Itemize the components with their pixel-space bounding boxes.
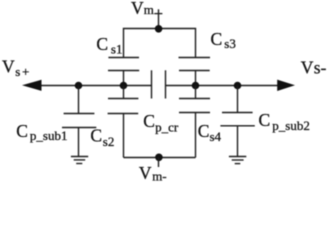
ground left: [71, 157, 88, 164]
svg-text:C: C: [90, 126, 102, 146]
node Vm+: [155, 25, 163, 33]
ground right: [229, 157, 246, 164]
label Cp_sub1: [16, 121, 67, 143]
svg-text:C: C: [259, 110, 271, 130]
svg-text:p_cr: p_cr: [155, 119, 179, 134]
node A Vs+/Cp_sub1 junction: [75, 82, 83, 90]
label Cp_cr: [143, 111, 179, 134]
svg-text:p_sub2: p_sub2: [272, 118, 310, 133]
svg-text:C: C: [96, 34, 108, 54]
svg-text:s3: s3: [224, 36, 236, 51]
label Cs2: [90, 126, 114, 149]
capacitor Cs2: [108, 86, 139, 158]
svg-text:C: C: [143, 111, 155, 131]
svg-text:C: C: [16, 121, 28, 141]
svg-text:m: m: [144, 2, 154, 17]
wire Vm- bottom rail: [124, 157, 196, 159]
node B Vs+/Cs1/Cs2 junction: [120, 82, 128, 90]
svg-text:+: +: [22, 64, 29, 79]
label Vs-: [301, 58, 327, 78]
label Cs3: [211, 29, 236, 51]
svg-text:C: C: [198, 121, 210, 141]
node Vm-: [155, 154, 163, 162]
capacitor Cs4: [179, 86, 210, 158]
svg-text:V: V: [301, 58, 314, 78]
arrow Vs+: [22, 80, 42, 91]
wire Vm+ lead stub: [158, 9, 160, 28]
svg-text:-: -: [321, 58, 327, 78]
svg-text:s4: s4: [210, 129, 222, 144]
node C Vs-/Cs3/Cs4 junction: [192, 82, 200, 90]
wire Vm+ top rail: [124, 29, 196, 58]
capacitor Cp_sub1: [62, 86, 96, 157]
svg-text:p_sub1: p_sub1: [30, 128, 68, 143]
svg-text:m-: m-: [152, 168, 166, 183]
svg-text:s: s: [15, 64, 20, 79]
capacitor Cs3: [179, 58, 211, 86]
label Vm+: [131, 0, 162, 18]
label Cs1: [96, 34, 122, 56]
svg-text:s1: s1: [111, 41, 123, 56]
svg-text:V: V: [2, 56, 15, 76]
svg-text:V: V: [131, 0, 144, 18]
label Cs4: [198, 121, 222, 144]
label Vm-: [139, 163, 167, 183]
label Cp_sub2: [259, 110, 310, 133]
svg-text:s2: s2: [103, 134, 115, 149]
wire Vm- lead stub: [158, 157, 160, 167]
label Vs+: [2, 56, 29, 79]
arrow Vs-: [277, 80, 295, 91]
capacitor Cp_cr: [152, 70, 166, 98]
capacitor Cp_sub2: [220, 86, 254, 157]
wire Vs+ line: [41, 85, 152, 87]
wire Vs- line: [166, 85, 278, 87]
capacitor Cs1: [108, 58, 139, 86]
svg-text:V: V: [139, 163, 152, 183]
node D Vs-/Cp_sub2 junction: [234, 82, 242, 90]
svg-text:C: C: [211, 29, 223, 49]
